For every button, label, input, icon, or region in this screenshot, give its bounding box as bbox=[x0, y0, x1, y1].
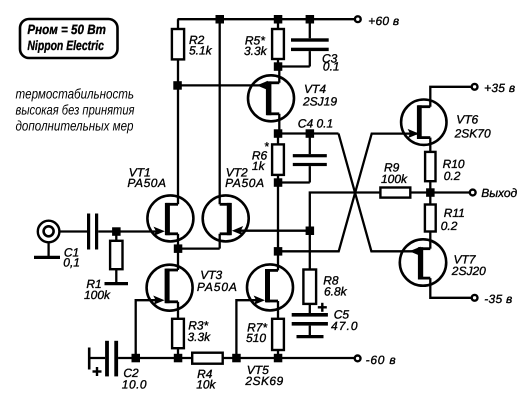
capacitor C5 bbox=[309, 304, 311, 313]
terminal output bbox=[470, 190, 476, 196]
title box bbox=[20, 19, 118, 58]
junction C4 top bbox=[306, 129, 315, 138]
junction R1 top bbox=[112, 227, 121, 236]
resistor R9 bbox=[380, 188, 410, 198]
terminal -35v bbox=[472, 295, 478, 301]
svg-text:2SK69: 2SK69 bbox=[244, 374, 283, 388]
junction feedback node bbox=[306, 227, 315, 236]
node A junction R2/VT4 gate bbox=[173, 81, 182, 90]
svg-text:2SJ19: 2SJ19 bbox=[302, 95, 337, 109]
wire VT4 gate bbox=[178, 84, 266, 86]
resistor R1 bbox=[115, 232, 117, 241]
wire feedback node up bbox=[310, 193, 381, 231]
resistor R4 bbox=[192, 353, 223, 364]
svg-text:2SJ20: 2SJ20 bbox=[451, 264, 486, 278]
junction sources bbox=[174, 244, 183, 253]
capacitor C2 bbox=[88, 348, 91, 370]
svg-text:PA50A: PA50A bbox=[197, 280, 237, 294]
wire VT3 gate loop bbox=[136, 300, 158, 358]
svg-text:10.0: 10.0 bbox=[122, 377, 147, 391]
wire VT1/VT2 sources join bbox=[178, 247, 220, 249]
transistor VT3 bbox=[147, 265, 193, 311]
transistor VT4 bbox=[248, 75, 294, 121]
wire X diagonal A (VT4 node to VT7 gate) bbox=[339, 134, 418, 252]
svg-text:2SK70: 2SK70 bbox=[454, 126, 491, 140]
junction R5/C3/VT4 bbox=[274, 62, 283, 71]
svg-text:+35 в: +35 в bbox=[484, 81, 515, 95]
wire X diagonal B (VT5 node to VT6 gate) bbox=[278, 134, 419, 252]
junction VT2 drain on rail bbox=[216, 15, 225, 24]
junction VT5 gate loop bottom bbox=[232, 354, 241, 363]
svg-text:Выход: Выход bbox=[481, 186, 517, 200]
wire VT2 gate to feedback node bbox=[238, 230, 310, 232]
junction VT3 gate loop bottom bbox=[132, 354, 141, 363]
resistor R7 bbox=[272, 319, 284, 350]
svg-text:*: * bbox=[264, 140, 269, 154]
terminal +60v bbox=[355, 16, 361, 22]
svg-text:1k: 1k bbox=[252, 159, 266, 173]
wire bottom rail bbox=[118, 357, 192, 359]
transistor VT1 bbox=[147, 195, 193, 241]
svg-text:Рном = 50 Вт: Рном = 50 Вт bbox=[27, 22, 106, 37]
wire C1 to VT1 gate bbox=[98, 230, 158, 232]
junction output node bbox=[426, 188, 435, 197]
svg-text:10k: 10k bbox=[196, 377, 216, 391]
transistor VT5 bbox=[247, 264, 293, 310]
svg-text:+60 в: +60 в bbox=[368, 14, 399, 28]
wire top rail bbox=[178, 18, 358, 20]
resistor R2 bbox=[177, 19, 179, 29]
svg-text:100k: 100k bbox=[381, 172, 408, 186]
junction C3 on rail bbox=[306, 15, 315, 24]
svg-text:0,1: 0,1 bbox=[63, 255, 80, 269]
capacitor C4 bbox=[309, 134, 311, 155]
svg-text:Nippon Electric: Nippon Electric bbox=[27, 38, 104, 53]
svg-text:47.0: 47.0 bbox=[331, 319, 358, 333]
svg-text:0.2: 0.2 bbox=[441, 219, 458, 233]
transistor VT7 bbox=[400, 239, 446, 285]
wire VT2 drain bbox=[219, 19, 221, 204]
resistor R3 bbox=[172, 319, 184, 348]
svg-text:высокая без принятия: высокая без принятия bbox=[16, 102, 135, 118]
svg-text:6.8k: 6.8k bbox=[324, 285, 348, 299]
junction VT4 source / R6 bbox=[274, 129, 283, 138]
resistor R5 bbox=[277, 19, 279, 29]
svg-text:-35 в: -35 в bbox=[484, 292, 512, 306]
svg-text:5.1k: 5.1k bbox=[189, 44, 213, 58]
junction R7 bottom bbox=[274, 354, 283, 363]
svg-text:VT6: VT6 bbox=[456, 113, 478, 127]
terminal +35v bbox=[472, 84, 478, 90]
resistor R10 bbox=[425, 152, 435, 181]
svg-text:PA50A: PA50A bbox=[127, 176, 166, 190]
input connector bbox=[38, 221, 60, 243]
svg-text:PA50A: PA50A bbox=[225, 176, 264, 190]
resistor R6 bbox=[277, 134, 279, 145]
junction R3 bottom bbox=[174, 354, 183, 363]
wire feedback node down to R8 bbox=[309, 231, 311, 270]
svg-text:C4 0.1: C4 0.1 bbox=[298, 116, 333, 130]
terminal -60v bbox=[355, 356, 361, 362]
junction R6 bottom / C4 bottom bbox=[274, 178, 283, 187]
junction R5 on rail bbox=[274, 15, 283, 24]
ground input bbox=[47, 242, 49, 256]
svg-text:3.3k: 3.3k bbox=[244, 44, 268, 58]
transistor VT2 bbox=[203, 195, 249, 241]
svg-text:510: 510 bbox=[246, 331, 266, 345]
svg-text:3.3k: 3.3k bbox=[188, 330, 212, 344]
ground R1 bbox=[105, 282, 129, 285]
resistor R8 bbox=[303, 270, 316, 304]
capacitor C1 bbox=[87, 214, 90, 250]
resistor R11 bbox=[429, 193, 431, 205]
svg-text:-60 в: -60 в bbox=[366, 353, 396, 367]
svg-text:термостабильность: термостабильность bbox=[16, 86, 135, 102]
svg-text:0.2: 0.2 bbox=[444, 169, 461, 183]
svg-text:дополнительных мер: дополнительных мер bbox=[16, 118, 134, 134]
transistor VT6 bbox=[401, 100, 446, 145]
wire input to C1 bbox=[59, 230, 87, 232]
junction VT5 drain node bbox=[274, 247, 283, 256]
svg-text:100k: 100k bbox=[84, 288, 111, 302]
wire node VT4-source to X bbox=[278, 132, 339, 134]
capacitor C3 bbox=[309, 19, 311, 38]
svg-text:0.1: 0.1 bbox=[323, 60, 340, 74]
wire VT5 gate loop bbox=[236, 300, 258, 358]
